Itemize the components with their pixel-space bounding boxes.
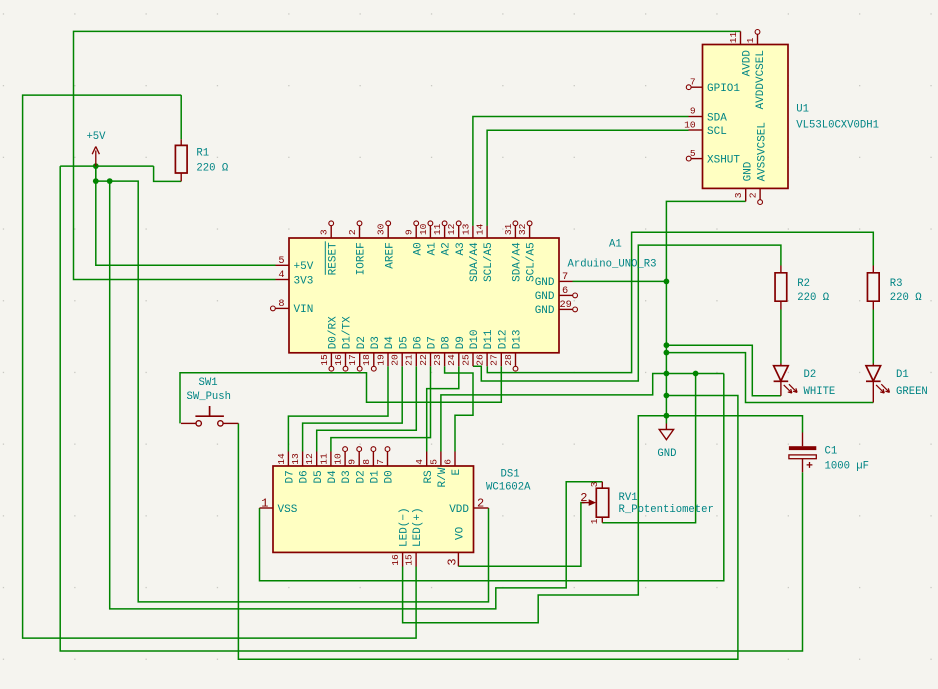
resistor R1 bottom lead xyxy=(180,173,182,181)
wire RV1 pin1 to ground xyxy=(602,374,695,523)
DS1 top pin 4 RS stub xyxy=(426,452,428,467)
DS1 top pin 9 open end xyxy=(357,447,362,452)
svg-text:16: 16 xyxy=(333,354,344,366)
DS1 top pin 8 open end xyxy=(371,447,376,452)
junction ground at GND pin7 xyxy=(664,279,670,285)
svg-text:220 Ω: 220 Ω xyxy=(890,292,922,304)
svg-text:14: 14 xyxy=(475,223,486,235)
A1 bottom pin 22 D7 stub xyxy=(430,353,432,366)
svg-text:D4: D4 xyxy=(384,336,396,350)
svg-text:17: 17 xyxy=(347,354,358,366)
junction ground at RV1 branch xyxy=(693,371,699,377)
wire A1 GND pin7 to ground column xyxy=(573,280,667,282)
DS1 top pin 9 D2 stub xyxy=(358,452,360,467)
svg-text:1: 1 xyxy=(745,37,756,43)
wire C1 positive to +5V rail xyxy=(60,166,802,651)
junction +5V rail node A xyxy=(93,178,99,184)
svg-text:D10: D10 xyxy=(469,329,481,349)
svg-text:D12: D12 xyxy=(497,329,509,349)
A1 bottom pin 27 D12 stub xyxy=(500,353,502,366)
resistor R3 bottom lead xyxy=(872,301,874,309)
svg-text:E: E xyxy=(451,469,463,476)
A1 pin 5 +5V stub xyxy=(276,264,290,266)
junction ground to D1 branch xyxy=(664,350,670,356)
DS1 pin 2 VDD stub xyxy=(474,507,489,509)
svg-text:29: 29 xyxy=(560,299,572,311)
DS1 top pin 10 open end xyxy=(343,447,348,452)
wire ground column to SW1 right xyxy=(238,396,738,660)
A1 bottom pin 19 D4 stub xyxy=(387,353,389,366)
svg-text:11: 11 xyxy=(318,453,329,465)
resistor R3 body xyxy=(867,273,879,301)
wire +5V rail horizontal xyxy=(60,165,153,167)
svg-text:D13: D13 xyxy=(512,329,524,349)
A1 bottom pin 24 D9 stub xyxy=(458,353,460,366)
A1 top pin 2 open end xyxy=(357,221,362,226)
svg-text:12: 12 xyxy=(304,453,315,465)
A1 top pin 31 SDA/A4 stub xyxy=(514,226,516,238)
junction ground to D2 branch xyxy=(664,342,670,348)
A1 top pin 2 IOREF stub xyxy=(359,226,361,238)
svg-text:D7: D7 xyxy=(285,470,297,483)
DS1 top pin 7 open end xyxy=(385,447,390,452)
potentiometer RV1 wiper arrow xyxy=(582,502,590,504)
svg-text:3: 3 xyxy=(319,229,330,235)
potentiometer RV1 wiper arrowhead xyxy=(589,499,596,506)
svg-text:A1: A1 xyxy=(609,239,622,251)
U1 pin 2 AVSSVCSEL stub xyxy=(759,188,761,199)
svg-text:A3: A3 xyxy=(455,242,467,255)
svg-text:16: 16 xyxy=(390,554,401,566)
potentiometer RV1 bottom lead xyxy=(601,517,603,523)
U1 pin 3 GND stub xyxy=(745,188,747,201)
A1 top pin 10 A1 stub xyxy=(429,226,431,238)
A1 top pin 10 open end xyxy=(428,221,433,226)
svg-text:220 Ω: 220 Ω xyxy=(196,163,228,175)
svg-text:D7: D7 xyxy=(427,336,439,349)
svg-text:31: 31 xyxy=(503,223,514,235)
svg-text:D2: D2 xyxy=(356,336,368,349)
svg-text:U1: U1 xyxy=(796,104,809,116)
svg-text:28: 28 xyxy=(503,354,514,366)
junction ground at R/W branch xyxy=(664,371,670,377)
svg-text:VDD: VDD xyxy=(449,504,469,516)
svg-text:14: 14 xyxy=(276,453,287,465)
A1 bottom pin 28 open end xyxy=(513,366,518,371)
svg-text:23: 23 xyxy=(432,354,443,366)
svg-text:AREF: AREF xyxy=(384,242,396,268)
svg-text:25: 25 xyxy=(460,354,471,366)
svg-text:1: 1 xyxy=(589,518,600,524)
svg-text:D4: D4 xyxy=(327,470,339,484)
U1 pin 7 GPIO1 stub xyxy=(691,86,702,88)
svg-text:D9: D9 xyxy=(455,336,467,349)
wire +5V branch down xyxy=(95,166,97,181)
DS1 top pin 11 D4 stub xyxy=(330,452,332,467)
A1 bottom pin 17 D2 stub xyxy=(359,353,361,366)
svg-text:WC1602A: WC1602A xyxy=(486,482,531,494)
svg-text:SDA/A4: SDA/A4 xyxy=(469,242,481,282)
svg-text:9: 9 xyxy=(690,106,696,117)
A1 top pin 14 SCL/A5 stub xyxy=(486,226,488,238)
wire ground column to D1 cathode xyxy=(666,353,873,403)
svg-text:5: 5 xyxy=(690,148,696,159)
LED D2 cathode bar xyxy=(774,380,789,382)
A1 bottom pin 15 open end xyxy=(329,366,334,371)
A1 top pin 30 open end xyxy=(386,221,391,226)
LED D1 cathode lead xyxy=(872,381,874,402)
svg-text:GND: GND xyxy=(535,277,555,289)
A1 top pin 13 SDA/A4 stub xyxy=(472,226,474,238)
svg-text:22: 22 xyxy=(418,354,429,366)
U1 pin 5 open end xyxy=(686,156,691,161)
wire 3V3 to U1 AVDD net xyxy=(74,31,741,279)
wire A1 D4 to DS1 D7 xyxy=(288,366,388,451)
A1 top pin 32 SCL/A5 stub xyxy=(529,226,531,238)
svg-text:3V3: 3V3 xyxy=(294,275,314,287)
svg-text:2: 2 xyxy=(477,496,484,510)
U1 pin 1 open end xyxy=(755,30,760,35)
svg-text:AVSSVCSEL: AVSSVCSEL xyxy=(757,122,769,181)
A1 bottom pin 18 D3 stub xyxy=(373,353,375,366)
A1 bottom pin 25 D10 stub xyxy=(472,353,474,366)
svg-text:SDA/A4: SDA/A4 xyxy=(512,242,524,282)
op-amp U1 body xyxy=(703,45,789,189)
A1 pin 6 open end xyxy=(573,293,578,298)
svg-text:2: 2 xyxy=(748,192,759,198)
microcontroller A1 body xyxy=(289,238,559,353)
svg-text:RS: RS xyxy=(423,470,435,484)
A1 top pin 12 A3 stub xyxy=(458,226,460,238)
svg-text:18: 18 xyxy=(361,354,372,366)
svg-text:220 Ω: 220 Ω xyxy=(797,292,829,304)
DS1 top pin 8 D1 stub xyxy=(372,452,374,467)
wire R3 bottom to D1 anode xyxy=(872,310,874,364)
A1 bottom pin 23 D8 stub xyxy=(444,353,446,366)
svg-text:D8: D8 xyxy=(441,336,453,349)
A1 top pin 9 A0 stub xyxy=(415,226,417,238)
svg-text:1000 µF: 1000 µF xyxy=(825,461,870,473)
svg-text:11: 11 xyxy=(728,32,739,44)
A1 pin 8 VIN stub xyxy=(276,307,290,309)
DS1 top pin 12 D5 stub xyxy=(316,452,318,467)
A1 bottom pin 21 D6 stub xyxy=(415,353,417,366)
svg-text:VO: VO xyxy=(455,526,467,540)
svg-text:GND: GND xyxy=(657,448,676,460)
svg-text:D5: D5 xyxy=(398,336,410,349)
svg-text:D6: D6 xyxy=(412,336,424,349)
svg-text:D3: D3 xyxy=(370,336,382,349)
DS1 top pin 14 D7 stub xyxy=(287,452,289,467)
A1 top pin 31 open end xyxy=(513,221,518,226)
ground symbol lead xyxy=(665,424,667,430)
svg-text:3: 3 xyxy=(589,481,600,487)
wire ground column to D2 cathode xyxy=(666,345,781,396)
svg-text:RV1: RV1 xyxy=(619,492,638,504)
svg-text:+5V: +5V xyxy=(294,261,314,273)
svg-text:D3: D3 xyxy=(341,470,353,483)
svg-text:10: 10 xyxy=(333,453,344,465)
svg-text:SCL/A5: SCL/A5 xyxy=(526,242,538,282)
DS1 pin 15 LED(+) stub xyxy=(415,552,417,566)
svg-text:7: 7 xyxy=(375,459,386,465)
A1 bottom pin 18 open end xyxy=(371,366,376,371)
wire DS1 VSS to ground xyxy=(260,374,724,581)
svg-text:D0: D0 xyxy=(384,470,396,483)
svg-text:R_Potentiometer: R_Potentiometer xyxy=(619,504,714,516)
LED D2 arrow 2 xyxy=(789,384,797,392)
svg-text:3: 3 xyxy=(445,558,459,565)
wire DS1 LED(-) to GND net xyxy=(403,416,803,623)
svg-text:10: 10 xyxy=(684,119,696,130)
svg-text:11: 11 xyxy=(432,223,443,235)
wire DS1 VO to RV1 wiper xyxy=(458,503,584,567)
A1 bottom pin 28 D13 stub xyxy=(515,353,517,366)
svg-text:AVDDVCSEL: AVDDVCSEL xyxy=(755,50,767,109)
svg-text:C1: C1 xyxy=(825,446,838,458)
wire R1 top lead up xyxy=(180,95,182,139)
svg-text:WHITE: WHITE xyxy=(804,386,836,398)
svg-text:30: 30 xyxy=(376,223,387,235)
svg-text:Arduino_UNO_R3: Arduino_UNO_R3 xyxy=(568,259,657,271)
A1 pin 6 GND stub xyxy=(559,294,573,296)
wire A1 D9 to DS1 RS xyxy=(427,366,459,451)
svg-text:D6: D6 xyxy=(299,470,311,483)
wire +5V pin5 to +5V rail xyxy=(96,166,276,265)
A1 pin 4 3V3 stub xyxy=(276,279,290,281)
A1 top pin 11 open end xyxy=(442,221,447,226)
wire A1 D10 to R2 xyxy=(473,245,781,381)
ground symbol triangle xyxy=(659,430,673,440)
A1 top pin 32 open end xyxy=(527,221,532,226)
U1 pin 7 open end xyxy=(686,85,691,90)
svg-text:12: 12 xyxy=(446,223,457,235)
resistor R2 top lead xyxy=(780,266,782,273)
A1 RESET overline xyxy=(324,241,326,274)
U1 pin 11 AVDD stub xyxy=(740,31,742,44)
svg-text:D5: D5 xyxy=(313,470,325,483)
A1 bottom pin 26 D11 stub xyxy=(486,353,488,366)
svg-text:6: 6 xyxy=(562,285,568,297)
switch SW1 right lead xyxy=(223,422,238,424)
DS1 top pin 7 D0 stub xyxy=(387,452,389,467)
svg-text:32: 32 xyxy=(517,223,528,235)
svg-text:7: 7 xyxy=(690,76,696,87)
capacitor C1 plus sign xyxy=(807,462,813,468)
LED D2 triangle xyxy=(774,366,789,381)
LED D1 arrow 1 xyxy=(876,385,884,393)
svg-text:D11: D11 xyxy=(483,329,495,349)
svg-text:SDA: SDA xyxy=(707,112,727,124)
svg-text:DS1: DS1 xyxy=(501,469,520,481)
svg-text:1: 1 xyxy=(261,496,268,510)
wire U1 SDA to A1 SDA/A4 xyxy=(473,117,689,226)
svg-text:2: 2 xyxy=(347,229,358,235)
svg-text:A2: A2 xyxy=(441,242,453,255)
capacitor C1 bottom lead xyxy=(802,459,804,473)
svg-text:GND: GND xyxy=(535,305,555,317)
svg-text:SCL: SCL xyxy=(707,126,727,138)
svg-text:R/W: R/W xyxy=(437,467,449,487)
switch SW1 actuator stem xyxy=(209,406,211,416)
svg-text:GREEN: GREEN xyxy=(896,386,928,398)
svg-text:IOREF: IOREF xyxy=(356,242,368,275)
svg-text:D2: D2 xyxy=(804,369,817,381)
junction ground at C1 line xyxy=(664,413,670,419)
svg-text:6: 6 xyxy=(442,459,453,465)
wire A1 D11 to R3 xyxy=(487,232,873,372)
svg-text:VL53L0CXV0DH1: VL53L0CXV0DH1 xyxy=(796,120,879,132)
DS1 top pin 6 E stub xyxy=(454,452,456,467)
resistor R3 top lead xyxy=(872,266,874,273)
A1 bottom pin 20 D5 stub xyxy=(401,353,403,366)
DS1 top pin 10 D3 stub xyxy=(344,452,346,467)
svg-text:VSS: VSS xyxy=(278,504,298,516)
svg-text:2: 2 xyxy=(580,491,587,505)
LED D1 triangle xyxy=(866,366,881,381)
A1 pin 8 open end xyxy=(271,306,276,311)
DS1 pin 16 LED(-) stub xyxy=(402,552,404,566)
svg-text:+5V: +5V xyxy=(86,131,106,143)
svg-text:20: 20 xyxy=(390,354,401,366)
potentiometer RV1 body xyxy=(596,488,608,517)
power symbol +5V arrow xyxy=(92,147,99,167)
DS1 top pin 13 D6 stub xyxy=(302,452,304,467)
svg-text:13: 13 xyxy=(460,223,471,235)
wire A1 D7 to DS1 D4 xyxy=(331,366,431,451)
A1 top pin 9 open end xyxy=(414,221,419,226)
svg-text:3: 3 xyxy=(733,192,744,198)
svg-text:5: 5 xyxy=(428,459,439,465)
svg-text:A1: A1 xyxy=(427,242,439,256)
svg-text:D2: D2 xyxy=(355,470,367,483)
U1 pin 1 AVDDVCSEL stub xyxy=(757,34,759,44)
svg-text:D1/TX: D1/TX xyxy=(342,316,354,349)
svg-text:8: 8 xyxy=(278,298,284,310)
A1 pin 29 GND stub xyxy=(559,308,573,310)
LED D1 arrow 2 xyxy=(881,384,889,392)
svg-text:VIN: VIN xyxy=(294,304,314,316)
A1 top pin 3 RESET stub xyxy=(330,226,332,238)
A1 top pin 3 open end xyxy=(329,221,334,226)
A1 pin 29 open end xyxy=(573,307,578,312)
DS1 pin 3 VO stub xyxy=(457,552,459,566)
LED D1 cathode bar xyxy=(866,380,881,382)
junction +5V symbol node xyxy=(93,163,99,169)
wire A1 D6 to DS1 D5 xyxy=(317,366,417,451)
svg-text:AVDD: AVDD xyxy=(741,50,753,77)
svg-text:SW1: SW1 xyxy=(199,377,218,389)
capacitor C1 top plate xyxy=(789,446,816,450)
svg-text:21: 21 xyxy=(404,354,415,366)
U1 pin 10 SCL stub xyxy=(689,129,703,131)
A1 top pin 30 AREF stub xyxy=(387,226,389,238)
svg-text:4: 4 xyxy=(414,459,425,465)
U1 pin 2 open end xyxy=(758,200,763,205)
switch SW1 actuator bar xyxy=(195,415,224,417)
wire SW1 left to A1 D12 xyxy=(180,366,501,423)
svg-text:R2: R2 xyxy=(797,278,810,290)
wire A1 D8 to DS1 E xyxy=(445,366,473,451)
wire R2 bottom to D2 anode xyxy=(780,310,782,364)
svg-text:LED(+): LED(+) xyxy=(412,507,424,547)
capacitor C1 bottom plate xyxy=(789,455,816,459)
wire +5V rail to RV1 pin3 xyxy=(110,181,603,609)
svg-text:26: 26 xyxy=(475,354,486,366)
A1 bottom pin 15 D0/RX stub xyxy=(330,353,332,366)
switch SW1 left lead xyxy=(181,422,196,424)
svg-text:9: 9 xyxy=(347,459,358,465)
svg-text:D1: D1 xyxy=(896,369,909,381)
svg-text:GND: GND xyxy=(743,161,755,181)
svg-text:4: 4 xyxy=(278,269,284,281)
wire R1 bottom to +5V rail jog xyxy=(154,166,182,181)
U1 pin 5 XSHUT stub xyxy=(691,158,702,160)
switch SW1 left contact xyxy=(196,421,201,426)
switch SW1 right contact xyxy=(218,421,223,426)
svg-text:19: 19 xyxy=(375,354,386,366)
U1 pin 9 SDA stub xyxy=(689,116,703,118)
svg-text:15: 15 xyxy=(319,354,330,366)
wire +5V rail to VDD of DS1 xyxy=(96,181,489,602)
svg-text:13: 13 xyxy=(290,453,301,465)
svg-text:GPIO1: GPIO1 xyxy=(707,83,740,95)
LED D1 anode lead xyxy=(872,364,874,366)
A1 bottom pin 17 open end xyxy=(357,366,362,371)
wire A1 D5 to DS1 D6 xyxy=(303,366,403,451)
svg-text:RESET: RESET xyxy=(327,242,339,275)
svg-text:D0/RX: D0/RX xyxy=(328,316,340,349)
svg-text:R1: R1 xyxy=(196,147,209,159)
svg-text:27: 27 xyxy=(489,354,500,366)
wire R1 top to DS1 LED(+) xyxy=(23,95,417,638)
resistor R2 bottom lead xyxy=(780,301,782,309)
LED D2 anode lead xyxy=(780,364,782,366)
svg-text:9: 9 xyxy=(404,229,415,235)
svg-text:7: 7 xyxy=(562,271,568,283)
resistor R2 body xyxy=(775,273,787,301)
svg-text:5: 5 xyxy=(278,255,284,267)
DS1 pin 1 VSS stub xyxy=(260,507,274,509)
resistor R1 top lead xyxy=(180,139,182,145)
svg-text:GND: GND xyxy=(535,291,555,303)
svg-text:LED(−): LED(−) xyxy=(399,507,411,547)
junction +5V rail node B xyxy=(107,178,113,184)
wire DS1 R/W to ground xyxy=(441,374,724,452)
svg-text:SW_Push: SW_Push xyxy=(187,391,232,403)
svg-text:15: 15 xyxy=(404,554,415,566)
resistor R1 body xyxy=(175,145,187,173)
svg-text:A0: A0 xyxy=(412,242,424,255)
potentiometer RV1 top lead xyxy=(601,482,603,489)
svg-text:8: 8 xyxy=(361,459,372,465)
A1 bottom pin 16 D1/TX stub xyxy=(345,353,347,366)
capacitor C1 top lead xyxy=(802,433,804,447)
svg-text:R3: R3 xyxy=(890,278,903,290)
svg-text:SCL/A5: SCL/A5 xyxy=(483,242,495,282)
A1 top pin 12 open end xyxy=(456,221,461,226)
svg-text:10: 10 xyxy=(418,223,429,235)
LED D2 cathode lead xyxy=(780,381,782,396)
junction ground at SW1 branch xyxy=(664,393,670,399)
wire U1 SCL to A1 SCL/A5 xyxy=(487,130,688,226)
LCD DS1 body xyxy=(273,466,474,552)
svg-text:D1: D1 xyxy=(370,470,382,484)
A1 top pin 11 A2 stub xyxy=(444,226,446,238)
A1 bottom pin 16 open end xyxy=(343,366,348,371)
DS1 top pin 5 R/W stub xyxy=(440,452,442,467)
svg-text:XSHUT: XSHUT xyxy=(707,154,740,166)
